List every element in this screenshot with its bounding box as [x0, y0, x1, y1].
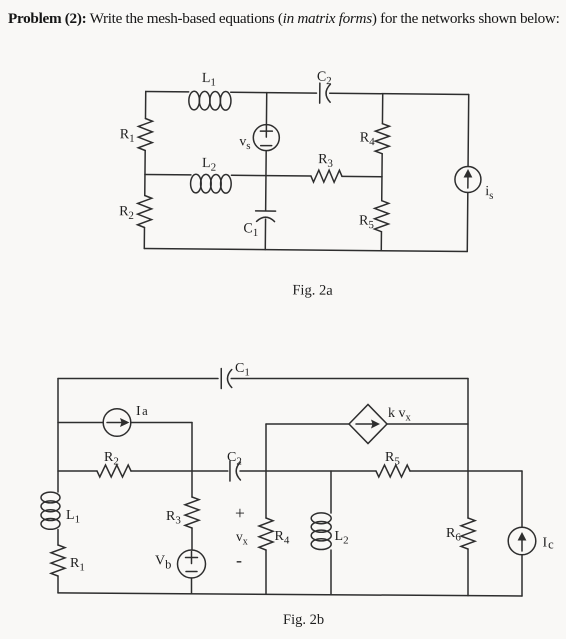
svg-text:is: is — [485, 184, 493, 202]
svg-text:R4: R4 — [360, 130, 376, 148]
svg-text:C2: C2 — [317, 70, 332, 88]
wire bottom rail — [144, 249, 467, 252]
wire vx R4 branch upper — [265, 424, 267, 518]
svg-text:-: - — [236, 550, 242, 570]
wire C1 to bottom rail — [264, 219, 266, 249]
dependent source k vx — [349, 405, 387, 444]
wire left rail top — [144, 92, 146, 119]
wire L2 to R3 — [231, 174, 310, 177]
svg-text:C1: C1 — [235, 361, 250, 379]
resistor R3 (fig 2b) — [185, 497, 199, 528]
wire left rail bottom — [143, 228, 145, 249]
inductor L1 — [189, 91, 231, 110]
wire L2 to bottom rail — [330, 550, 332, 595]
wire R2 to R3 node — [131, 470, 192, 472]
svg-text:R4: R4 — [275, 529, 290, 547]
wire R6 branch upper — [467, 379, 469, 519]
wire R5 to right corner — [410, 470, 522, 472]
svg-text:k vx: k vx — [388, 406, 412, 424]
svg-text:Ia: Ia — [136, 404, 148, 419]
wire top rail left of C1 — [58, 378, 218, 380]
current source Ic — [508, 527, 536, 555]
resistor R1 (fig 2b) — [51, 545, 65, 576]
svg-text:R1: R1 — [120, 127, 135, 145]
svg-text:R5: R5 — [385, 450, 400, 468]
resistor R5 — [374, 201, 388, 232]
capacitor C2 (fig 2b) — [230, 461, 241, 481]
wire C2 to top-right corner — [330, 93, 469, 94]
wire Ia row right — [131, 422, 192, 424]
current source is — [455, 166, 481, 192]
wire R2 row from left rail — [58, 470, 97, 472]
svg-text:Fig. 2a: Fig. 2a — [292, 282, 333, 298]
wire R5 branch top — [381, 177, 383, 201]
wire R4 to middle rail — [381, 154, 383, 177]
current source Ia — [103, 409, 131, 437]
resistor R2 (fig 2b) — [97, 465, 131, 477]
wire R6 to bottom rail — [467, 549, 469, 596]
svg-text:C2: C2 — [227, 450, 242, 468]
svg-text:R3: R3 — [318, 152, 334, 170]
wire left rail between L1 R1 — [57, 530, 59, 546]
svg-text:L1: L1 — [66, 508, 80, 526]
wire left rail middle — [144, 151, 146, 196]
wire vs to middle rail — [265, 151, 267, 176]
wire right rail bottom — [466, 192, 469, 251]
svg-text:L2: L2 — [202, 156, 216, 174]
wire R4 branch top — [381, 94, 383, 124]
capacitor C1 (fig 2b) — [221, 369, 232, 389]
svg-text:R5: R5 — [359, 213, 375, 231]
wire L1 to C2 — [231, 91, 317, 94]
svg-text:C1: C1 — [243, 221, 258, 239]
svg-text:R6: R6 — [446, 526, 461, 544]
svg-text:L2: L2 — [335, 529, 349, 547]
wire L2 branch upper — [330, 471, 332, 513]
wire Ia row left — [58, 422, 103, 424]
wire R3 to node — [342, 175, 382, 177]
resistor R2 — [137, 195, 151, 227]
resistor R5 (fig 2b) — [376, 465, 410, 477]
wire R3 branch upper — [191, 423, 193, 498]
voltage source Vb — [178, 550, 206, 578]
wire kvx row left — [266, 423, 349, 425]
wire vs branch top — [265, 93, 267, 125]
svg-text:R3: R3 — [166, 509, 181, 527]
resistor R4 (fig 2b) — [259, 518, 273, 550]
svg-text:L1: L1 — [202, 71, 216, 89]
wire bottom rail (fig 2b) — [58, 593, 522, 596]
svg-text:R2: R2 — [104, 450, 119, 468]
capacitor C1 — [256, 211, 276, 222]
capacitor C2 — [320, 83, 331, 103]
svg-text:R2: R2 — [119, 204, 134, 222]
resistor R6 — [461, 518, 475, 549]
resistor R4 — [375, 124, 389, 154]
svg-text:vs: vs — [239, 134, 250, 152]
wire R3 node to C2 — [192, 470, 228, 472]
wire R5 to bottom rail — [380, 232, 382, 251]
svg-text:+: + — [235, 503, 245, 523]
inductor L1 (fig 2b) — [41, 492, 60, 529]
resistor R1 — [138, 118, 152, 150]
svg-text:Ic: Ic — [543, 536, 555, 552]
voltage source vs — [253, 125, 279, 151]
wire Ic to bottom rail — [521, 555, 523, 596]
wire C1 branch top — [265, 176, 267, 211]
wire C2 to R5 — [240, 470, 376, 472]
wire top-left to L1 — [146, 91, 189, 93]
inductor L2 — [190, 174, 231, 193]
wire R4 to bottom rail — [265, 550, 267, 594]
wire Vb to bottom rail — [191, 578, 193, 594]
inductor L2 (fig 2b) — [311, 513, 331, 550]
svg-text:Fig. 2b: Fig. 2b — [283, 612, 324, 628]
wire left rail bottom — [57, 576, 59, 593]
resistor R3 — [311, 170, 342, 182]
svg-text:vx: vx — [236, 529, 248, 548]
svg-text:R1: R1 — [70, 556, 85, 574]
wire middle rail to L2 — [145, 174, 191, 176]
wire top rail right of C1 — [231, 378, 468, 380]
wire kvx row right — [387, 423, 468, 425]
wire left rail upper — [57, 379, 59, 493]
wire Ic branch upper — [521, 471, 523, 527]
wire R3 to Vb — [191, 528, 193, 550]
wire right rail top — [467, 94, 470, 166]
svg-text:Vb: Vb — [155, 554, 171, 572]
